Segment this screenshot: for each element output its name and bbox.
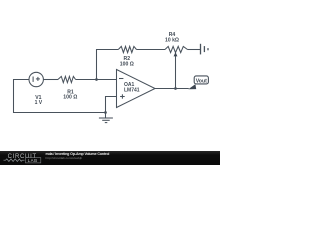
footer url text bbox=[46, 157, 83, 160]
wire R2 to R4 bbox=[137, 49, 166, 51]
svg-text:100 Ω: 100 Ω bbox=[63, 95, 77, 101]
footer bar bbox=[0, 151, 220, 165]
footer credit text bbox=[46, 153, 110, 157]
ground GND2 (rotated right) bbox=[201, 44, 209, 55]
CircuitLab logo bbox=[0, 151, 46, 165]
svg-text:Vout: Vout bbox=[196, 79, 207, 85]
wire V1 minus terminal to ground node (left loop) bbox=[14, 80, 105, 113]
wire ground node to non-inverting input bbox=[106, 97, 117, 113]
wire feedback: inverting node up to R2 bbox=[97, 50, 119, 81]
wire V1 plus terminal to R1 bbox=[43, 79, 58, 81]
junction inverting node bbox=[95, 78, 98, 81]
node Vout flag bbox=[188, 76, 208, 89]
voltage source V1 bbox=[29, 72, 43, 106]
svg-text:10 kΩ: 10 kΩ bbox=[165, 38, 179, 44]
resistor R2 bbox=[118, 46, 136, 67]
svg-text:LM741: LM741 bbox=[124, 87, 140, 93]
wire wiper to output node bbox=[175, 56, 177, 89]
junction ground node bbox=[104, 111, 107, 114]
op-amp OA1 bbox=[117, 70, 156, 108]
svg-text:100 Ω: 100 Ω bbox=[120, 61, 134, 67]
wire R1 to inverting input bbox=[76, 79, 117, 81]
svg-text:LAB: LAB bbox=[28, 158, 38, 163]
potentiometer R4 bbox=[165, 32, 188, 56]
junction output node bbox=[174, 87, 177, 90]
resistor R1 bbox=[58, 76, 77, 100]
wire op-amp output to Vout bbox=[155, 88, 189, 90]
svg-text:1 V: 1 V bbox=[35, 100, 43, 106]
wire R4 to ground bbox=[188, 49, 201, 51]
ground GND1 bbox=[99, 113, 113, 123]
